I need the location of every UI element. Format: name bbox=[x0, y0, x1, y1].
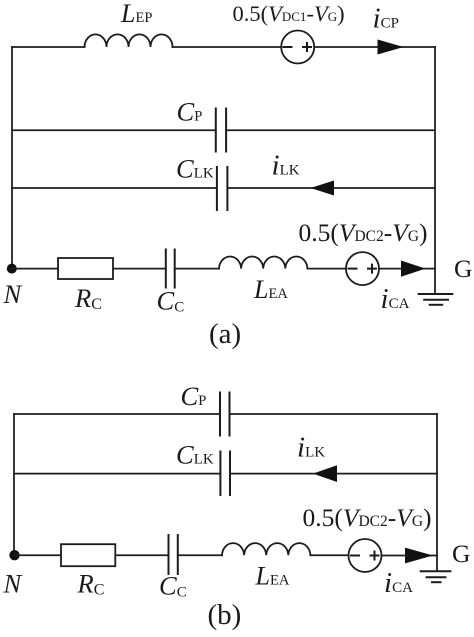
svg-text:0.5(VDC2-VG): 0.5(VDC2-VG) bbox=[299, 218, 428, 247]
wire: CP rail right segment (a) bbox=[226, 129, 435, 131]
label 0.5(VDC2-VG) (b) bbox=[303, 503, 432, 532]
svg-text:CP: CP bbox=[177, 97, 203, 127]
svg-text:G: G bbox=[454, 254, 472, 283]
svg-text:(a): (a) bbox=[209, 318, 241, 350]
label L_EP bbox=[120, 0, 152, 28]
wire: CC to inductor LEA (b) bbox=[178, 554, 222, 556]
wire: bottom rail, node N to resistor (b) bbox=[15, 554, 62, 556]
svg-text:(b): (b) bbox=[208, 599, 242, 631]
resistor RC (a) bbox=[58, 258, 113, 279]
wire: right vertical rail (b) bbox=[436, 414, 438, 571]
svg-text:0.5(VDC2-VG): 0.5(VDC2-VG) bbox=[303, 503, 432, 532]
capacitor CP (a) bbox=[216, 109, 226, 152]
label LEA (b) bbox=[255, 562, 290, 591]
svg-text:LEP: LEP bbox=[120, 0, 152, 28]
svg-text:CLK: CLK bbox=[176, 440, 214, 470]
svg-text:CP: CP bbox=[181, 381, 207, 411]
wire: right vertical rail (a), top rail to ground bbox=[434, 47, 436, 294]
label G (b) bbox=[452, 539, 470, 568]
label CC (b) bbox=[159, 571, 187, 601]
svg-text:iCP: iCP bbox=[373, 3, 399, 35]
svg-text:CC: CC bbox=[157, 286, 185, 316]
label RC (b) bbox=[77, 569, 105, 599]
arrow iCP (current direction, pointing right) bbox=[378, 40, 404, 55]
arrow iLK (current direction, pointing left) (a) bbox=[311, 181, 335, 196]
wire: LEA to source (a) bbox=[308, 268, 347, 270]
inductor L_EP bbox=[85, 34, 173, 47]
wire: source to right rail (a) bbox=[379, 268, 435, 270]
label CP (b) bbox=[181, 381, 207, 411]
svg-text:G: G bbox=[452, 539, 470, 568]
svg-text:CLK: CLK bbox=[176, 153, 214, 183]
wire: top rail right segment (a) bbox=[314, 46, 435, 48]
ground G (a) bbox=[419, 294, 453, 305]
capacitor CC (b) bbox=[169, 535, 178, 574]
label 0.5(VDC2-VG) (a) bbox=[299, 218, 428, 247]
label CLK (b) bbox=[176, 440, 214, 470]
svg-text:N: N bbox=[3, 279, 23, 309]
label N (a) bbox=[3, 279, 23, 309]
capacitor CLK (b) bbox=[220, 452, 230, 496]
capacitor CC (a) bbox=[166, 250, 175, 288]
wire: CLK rail right segment (b) bbox=[230, 473, 437, 475]
label iCA (b) bbox=[384, 567, 413, 599]
capacitor CP (b) bbox=[220, 393, 230, 436]
wire: left vertical rail (b) bbox=[13, 414, 15, 555]
svg-text:CC: CC bbox=[159, 571, 187, 601]
arrow iCA (current direction, pointing right) (b) bbox=[405, 548, 433, 564]
svg-text:iCA: iCA bbox=[381, 283, 410, 315]
wire: CLK rail right segment (a) bbox=[227, 187, 435, 189]
node N (b) bbox=[9, 550, 19, 560]
voltage source 0.5(VDC2-VG) symbol (b) bbox=[349, 539, 382, 572]
label iLK (a) bbox=[272, 149, 300, 181]
node N (a) bbox=[7, 264, 17, 274]
svg-text:LEA: LEA bbox=[253, 275, 288, 304]
label (a) bbox=[209, 318, 241, 350]
label (b) bbox=[208, 599, 242, 631]
label G (a) bbox=[454, 254, 472, 283]
svg-text:N: N bbox=[3, 568, 23, 598]
ground G (b) bbox=[421, 571, 451, 582]
svg-text:iCA: iCA bbox=[384, 567, 413, 599]
label iCA (a) bbox=[381, 283, 410, 315]
capacitor CLK (a) bbox=[217, 167, 228, 210]
arrow iCA (current direction, pointing right) (a) bbox=[401, 261, 426, 277]
svg-text:iLK: iLK bbox=[297, 432, 325, 464]
wire: LEA to source (b) bbox=[311, 554, 349, 556]
wire: CP rail left segment (b) bbox=[14, 413, 220, 415]
svg-text:RC: RC bbox=[77, 569, 105, 599]
wire: resistor to capacitor CC (b) bbox=[115, 554, 168, 556]
label CLK (a) bbox=[176, 153, 214, 183]
wire: top rail segment between L_EP and source (a) bbox=[173, 46, 282, 48]
arrow iLK (current direction, pointing left) (b) bbox=[313, 465, 337, 482]
wire: bottom rail, node N to resistor (a) bbox=[12, 268, 58, 270]
wire: CLK rail left segment (b) bbox=[14, 473, 220, 475]
label iCP bbox=[373, 3, 399, 35]
voltage source 0.5(VDC2-VG) symbol (a) bbox=[346, 252, 379, 285]
svg-text:RC: RC bbox=[74, 283, 102, 313]
voltage source 0.5(VDC1-VG) symbol (a) bbox=[281, 31, 314, 64]
wire: CP rail left segment (a) bbox=[12, 129, 216, 131]
wire: CLK rail left segment (a) bbox=[12, 187, 217, 189]
wire: source to right rail (b) bbox=[382, 555, 438, 557]
inductor LEA (a) bbox=[219, 257, 307, 269]
wire: resistor to capacitor CC (a) bbox=[113, 268, 166, 270]
label RC (a) bbox=[74, 283, 102, 313]
wire: top rail left segment (a) bbox=[12, 46, 85, 48]
label N (b) bbox=[3, 568, 23, 598]
label LEA (a) bbox=[253, 275, 288, 304]
wire: CC to inductor LEA (a) bbox=[175, 268, 219, 270]
wire: left vertical rail (a), node N to top rail bbox=[11, 47, 13, 269]
label 0.5(VDC1-VG) bbox=[233, 1, 345, 26]
label CP (a) bbox=[177, 97, 203, 127]
label CC (a) bbox=[157, 286, 185, 316]
svg-text:0.5(VDC1-VG): 0.5(VDC1-VG) bbox=[233, 1, 345, 26]
resistor RC (b) bbox=[61, 544, 115, 566]
wire: CP rail right segment (b) bbox=[230, 413, 438, 415]
svg-text:LEA: LEA bbox=[255, 562, 290, 591]
label iLK (b) bbox=[297, 432, 325, 464]
inductor LEA (b) bbox=[222, 543, 310, 555]
svg-text:iLK: iLK bbox=[272, 149, 300, 181]
